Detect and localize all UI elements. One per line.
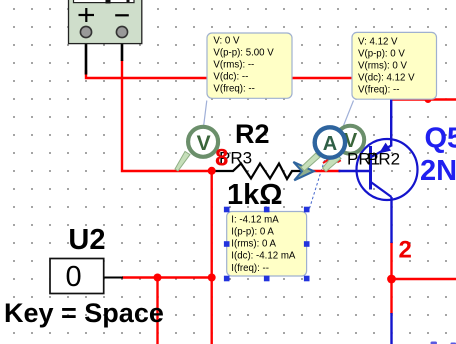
svg-text:PR2: PR2 — [367, 150, 400, 169]
svg-text:V(rms): --: V(rms): -- — [213, 60, 254, 71]
svg-text:V(rms): 0 V: V(rms): 0 V — [358, 61, 408, 72]
svg-text:2: 2 — [399, 236, 412, 263]
svg-text:8: 8 — [215, 145, 228, 172]
svg-text:Key = Space: Key = Space — [4, 298, 164, 328]
svg-text:I: -4.12 mA: I: -4.12 mA — [231, 215, 279, 226]
svg-text:I(rms): 0 A: I(rms): 0 A — [231, 239, 276, 250]
svg-text:I(p-p): 0 A: I(p-p): 0 A — [231, 227, 274, 238]
svg-text:V: V — [197, 132, 211, 155]
svg-text:V(dc): --: V(dc): -- — [213, 72, 248, 83]
svg-text:2N: 2N — [420, 155, 456, 187]
svg-text:0: 0 — [66, 261, 82, 293]
svg-text:R2: R2 — [235, 119, 270, 149]
svg-text:A: A — [323, 133, 337, 155]
svg-text:V(freq): --: V(freq): -- — [213, 84, 254, 95]
svg-text:I(freq): --: I(freq): -- — [231, 263, 269, 274]
svg-text:V(freq): --: V(freq): -- — [358, 85, 399, 96]
svg-text:1kΩ: 1kΩ — [227, 179, 283, 211]
svg-text:V: 4.12 V: V: 4.12 V — [358, 37, 398, 48]
svg-text:Q5: Q5 — [425, 123, 456, 155]
svg-text:V: 0 V: V: 0 V — [213, 36, 240, 47]
svg-text:I(dc): -4.12 mA: I(dc): -4.12 mA — [231, 251, 296, 262]
svg-text:U2: U2 — [68, 224, 105, 256]
svg-text:V(p-p): 0 V: V(p-p): 0 V — [358, 49, 405, 60]
svg-text:V(p-p): 5.00 V: V(p-p): 5.00 V — [213, 48, 274, 59]
svg-text:V(dc): 4.12 V: V(dc): 4.12 V — [358, 73, 415, 84]
